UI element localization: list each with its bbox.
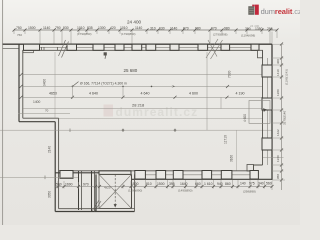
- section cut slashes left: [59, 40, 69, 58]
- bottom dimension extension stubs: [58, 180, 272, 190]
- top wall column 3: [93, 44, 104, 50]
- svg-text:340: 340: [258, 182, 264, 186]
- left step inner: [23, 117, 59, 119]
- top wall column 4: [115, 44, 124, 50]
- svg-text:930: 930: [63, 26, 69, 30]
- left wall outer: [18, 44, 20, 122]
- bottom dimension line: [55, 186, 272, 188]
- svg-text:1300: 1300: [98, 26, 106, 30]
- svg-text:980: 980: [195, 27, 201, 31]
- elevator centreline: [114, 174, 116, 206]
- interior vertical x221: [220, 97, 222, 108]
- svg-text:750: 750: [16, 26, 22, 30]
- interior vertical x207: [206, 52, 208, 130]
- elevator cross diagonal 1: [99, 174, 132, 208]
- interior line y108.6: [23, 108, 263, 110]
- leader dot: [72, 86, 74, 88]
- sw room divider wall 2: [81, 171, 83, 210]
- right wall column 3: [262, 138, 272, 150]
- wall crossing slashes left: [20, 73, 23, 99]
- bottom-left extension tick: [44, 176, 46, 180]
- bottom wall inner line: [59, 170, 254, 172]
- svg-text:1640: 1640: [180, 182, 188, 186]
- svg-text:310: 310: [150, 27, 156, 31]
- svg-text:dumrealit.cz: dumrealit.cz: [261, 7, 300, 16]
- svg-text:9400: 9400: [43, 79, 47, 86]
- stairwell bay right wall a: [131, 174, 133, 208]
- interior vertical x123: [122, 86, 124, 97]
- bottom wall column 2: [135, 171, 146, 180]
- stairwell bay bottom: [96, 208, 135, 210]
- svg-text:980: 980: [224, 27, 230, 31]
- bottom wall column 6: [221, 171, 232, 180]
- svg-text:420: 420: [110, 26, 116, 30]
- svg-text:4 640: 4 640: [89, 91, 98, 95]
- svg-text:295: 295: [267, 27, 273, 31]
- svg-text:1010: 1010: [77, 26, 85, 30]
- watermark dumrealit.cz: [104, 105, 199, 119]
- interior line y130: [0, 129, 272, 131]
- bottom bracket texts: [128, 189, 256, 194]
- bottom dimension texts: [56, 182, 272, 187]
- section cut cross right: [206, 39, 223, 59]
- top dimension ticks: [13, 29, 279, 32]
- top wall column 9: [221, 44, 230, 50]
- svg-text:4x20: 4x20: [104, 186, 111, 190]
- svg-text:dumrealit.cz: dumrealit.cz: [116, 105, 199, 119]
- svg-text:Ø 166, 77114 (7O271) 4,300 m: Ø 166, 77114 (7O271) 4,300 m: [80, 81, 127, 85]
- top dimension line: [14, 29, 277, 31]
- right wall column 2: [262, 98, 272, 110]
- svg-text:760: 760: [17, 33, 22, 37]
- right wall column 1: [262, 65, 272, 77]
- bottom wall column 5: [202, 171, 212, 180]
- svg-text:630: 630: [159, 27, 165, 31]
- svg-text:(1790|890): (1790|890): [121, 32, 135, 36]
- svg-text:(2790|898): (2790|898): [213, 33, 227, 37]
- top dimension bracket texts: [17, 32, 255, 38]
- svg-text:1410: 1410: [276, 69, 280, 76]
- top wall column 1: [24, 44, 40, 50]
- bottom wall outer line: [131, 178, 272, 180]
- right porch rectangle: [249, 101, 270, 124]
- svg-text:835: 835: [87, 26, 93, 30]
- svg-text:1140: 1140: [170, 27, 177, 31]
- right dimension line: [281, 44, 283, 190]
- interior dim line 25680: [23, 74, 263, 76]
- top wall column 5: [132, 44, 142, 50]
- left wall inner: [22, 50, 24, 118]
- left lower extension line: [0, 176, 78, 178]
- svg-text:(1490|890): (1490|890): [178, 189, 192, 193]
- sw room divider wall 1: [78, 171, 80, 210]
- svg-text:940: 940: [217, 182, 223, 186]
- elevator cross diagonal 2: [99, 174, 132, 208]
- right wall top corner step: [258, 50, 263, 58]
- svg-text:1500: 1500: [157, 182, 165, 186]
- right extension stubs: [263, 44, 285, 180]
- bottom right corner step lines: [254, 165, 263, 171]
- svg-text:1500: 1500: [28, 26, 36, 30]
- svg-text:958: 958: [276, 174, 280, 179]
- top wall column 7: [170, 44, 179, 50]
- interior dim line y97: [23, 96, 263, 98]
- top dimension texts row: [16, 24, 273, 31]
- svg-text:975: 975: [249, 182, 255, 186]
- interior line y113 short: [19, 112, 71, 114]
- bottom wall band left: [55, 172, 99, 174]
- dim extension vertical x236.5: [236, 130, 238, 171]
- top wall inner line: [23, 49, 258, 51]
- right wall glazing line: [266, 58, 268, 165]
- svg-text:4 640: 4 640: [141, 91, 150, 95]
- svg-text:(1196|1243): (1196|1243): [285, 69, 289, 85]
- svg-text:560: 560: [266, 182, 272, 186]
- svg-text:660: 660: [195, 182, 201, 186]
- interior line y86: [23, 85, 263, 87]
- bottom wall column 7: [250, 171, 258, 180]
- right wall inner: [262, 50, 264, 165]
- svg-text:3160: 3160: [230, 155, 234, 162]
- svg-text:1140: 1140: [43, 26, 50, 30]
- top wall eave line left: [3, 48, 19, 50]
- svg-text:28 218: 28 218: [132, 102, 145, 107]
- bottom wall thick top of stairwell: [99, 171, 131, 175]
- sw wing bottom wall: [55, 211, 134, 213]
- top wall outer line: [3, 43, 272, 45]
- svg-text:24 400: 24 400: [127, 19, 141, 24]
- svg-text:140: 140: [240, 182, 246, 186]
- window jamb ticks: [42, 47, 58, 50]
- sw room divider wall 4: [94, 171, 96, 212]
- svg-text:970: 970: [83, 183, 89, 187]
- svg-text:(1194|698): (1194|698): [241, 34, 255, 38]
- top wall column 2: [67, 44, 77, 50]
- bottom wall column 3: [156, 171, 166, 180]
- svg-text:4 190: 4 190: [236, 91, 245, 95]
- svg-text:790: 790: [55, 26, 61, 30]
- marks on line y86: [122, 85, 229, 88]
- svg-text:1500: 1500: [131, 182, 139, 186]
- svg-text:4650: 4650: [49, 91, 57, 95]
- right wall outer: [271, 44, 273, 180]
- svg-text:11710: 11710: [224, 135, 228, 144]
- svg-text:3370|2140: 3370|2140: [283, 111, 287, 125]
- marks on line y130: [70, 128, 177, 132]
- sw room divider wall 3: [91, 171, 93, 212]
- top wall column 8: [198, 44, 208, 50]
- elevator box: [99, 174, 132, 208]
- top dimension extension stubs: [14, 31, 277, 44]
- right corner extension: [271, 32, 273, 45]
- porch arrow mark: [263, 108, 267, 112]
- paper left edge line: [2, 0, 4, 225]
- svg-text:1690: 1690: [65, 183, 73, 187]
- svg-text:1360: 1360: [276, 155, 280, 162]
- sw wing bottom wall inner: [59, 208, 96, 210]
- svg-text:860: 860: [225, 182, 231, 186]
- top wall window glazing line: [33, 46, 253, 48]
- interior vertical x55: [54, 52, 56, 118]
- svg-text:395: 395: [169, 182, 175, 186]
- svg-text:4 600: 4 600: [243, 114, 247, 122]
- svg-text:1 610: 1 610: [204, 182, 213, 186]
- stairwell bay left wall: [95, 174, 97, 211]
- svg-text:1140: 1140: [135, 26, 142, 30]
- svg-text:(298|898): (298|898): [243, 190, 256, 194]
- svg-text:1400: 1400: [33, 100, 41, 104]
- bottom wall column 1: [60, 171, 73, 179]
- dim texts row 4640: [49, 91, 245, 95]
- svg-text:1280: 1280: [276, 89, 280, 96]
- bottom dimension ticks: [57, 185, 274, 188]
- top wall column 6: [146, 44, 156, 50]
- left lower wall inner: [58, 118, 60, 209]
- svg-text:3350: 3350: [48, 191, 52, 198]
- interior line y118 extension: [59, 117, 263, 119]
- svg-text:870: 870: [183, 27, 189, 31]
- stair hatch: [92, 200, 101, 212]
- left step outer: [19, 121, 55, 123]
- svg-text:4 600: 4 600: [189, 91, 198, 95]
- section mark B: [104, 52, 107, 59]
- svg-text:1010: 1010: [120, 26, 128, 30]
- bottom right corner step box: [247, 165, 254, 172]
- svg-text:(1190|890): (1190|890): [128, 189, 142, 193]
- stairwell bay right wall b: [134, 174, 136, 211]
- right dimension ticks: [280, 43, 283, 182]
- bottom wall column 4: [173, 171, 183, 180]
- svg-text:7930: 7930: [228, 70, 232, 78]
- svg-text:390: 390: [245, 27, 251, 31]
- leader diagonal: [73, 82, 79, 87]
- svg-text:810: 810: [146, 182, 152, 186]
- interior vertical x72.5: [72, 86, 74, 98]
- ticks on line y97: [71, 96, 229, 99]
- svg-text:500: 500: [56, 183, 62, 187]
- svg-text:300: 300: [276, 59, 280, 64]
- svg-text:70: 70: [45, 109, 49, 113]
- left lower wall outer: [54, 122, 56, 212]
- top wall column 10: [251, 44, 259, 50]
- svg-text:2140: 2140: [48, 146, 52, 153]
- bottom wall glazing line: [134, 174, 250, 176]
- elevator arrow: [114, 204, 117, 207]
- svg-text:1422: 1422: [276, 129, 280, 136]
- svg-text:1350: 1350: [255, 27, 263, 31]
- top wall pilaster bump: [23, 50, 34, 52]
- svg-text:25 680: 25 680: [124, 68, 138, 73]
- logo icon dumrealit: [248, 5, 258, 15]
- svg-text:970: 970: [211, 27, 217, 31]
- svg-text:(1790|890): (1790|890): [77, 32, 91, 36]
